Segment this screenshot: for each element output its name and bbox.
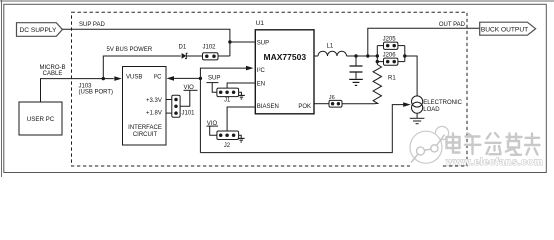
connector BUCK OUTPUT: [480, 22, 536, 35]
ground (J1): [238, 92, 245, 99]
figure frame: [0, 0, 554, 177]
arrow into electronic load: [403, 102, 411, 107]
ground C1: [349, 79, 363, 85]
svg-text:L1: L1: [327, 44, 334, 50]
svg-text:SUP PAD: SUP PAD: [79, 22, 105, 28]
wire J205/J206 right bus: [404, 46, 406, 62]
box USER PC: [19, 102, 62, 135]
wire load control bottom run: [200, 105, 404, 153]
header J101: [172, 95, 180, 117]
ground (J2): [238, 135, 245, 142]
wire 5V BUS POWER: [103, 56, 181, 79]
wire LX to L1: [314, 55, 318, 57]
svg-text:USER PC: USER PC: [27, 116, 55, 123]
connector DC SUPPLY: [17, 23, 63, 37]
svg-text:J206: J206: [383, 52, 397, 58]
svg-text:BIASEN: BIASEN: [257, 104, 279, 110]
wire USB cable from USER PC: [41, 79, 114, 102]
svg-text:J101: J101: [182, 110, 196, 116]
svg-text:OUT PAD: OUT PAD: [439, 22, 466, 28]
wire SUP node to SUP pin: [230, 41, 255, 43]
svg-text:5V BUS POWER: 5V BUS POWER: [107, 47, 153, 53]
svg-text:U1: U1: [256, 20, 265, 27]
inductor L1: [318, 51, 347, 56]
svg-text:CIRCUIT: CIRCUIT: [133, 132, 158, 138]
junction J206 left pin node: [376, 60, 379, 63]
IC U1 MAX77503: [255, 30, 314, 114]
svg-text:EN: EN: [257, 81, 265, 87]
wire L1 to output node: [347, 55, 378, 57]
svg-text:J102: J102: [203, 44, 217, 50]
wire +1.8V stub: [166, 112, 172, 114]
svg-text:MAX77503: MAX77503: [264, 52, 307, 62]
junction right bus node: [403, 54, 406, 57]
svg-text:(USB PORT): (USB PORT): [79, 90, 114, 96]
wire VIO to J2 pin1: [210, 126, 217, 135]
capacitor C1 lead: [355, 56, 357, 66]
svg-text:I²C: I²C: [154, 75, 163, 81]
wire OUT PAD riser: [368, 28, 480, 56]
wire D1 to J102: [187, 55, 203, 57]
capacitor C1: [350, 66, 363, 72]
svg-text:BUCK OUTPUT: BUCK OUTPUT: [481, 26, 528, 33]
wire I2C tap to interface circuit: [173, 77, 201, 79]
wire J205 left bus: [376, 46, 378, 65]
wire EN: [227, 83, 254, 88]
junction J205 left bus node: [376, 54, 379, 57]
svg-text:LOAD: LOAD: [423, 107, 440, 113]
junction OUT riser node: [366, 54, 369, 57]
svg-text:POK: POK: [298, 104, 311, 110]
resistor R1: [373, 65, 381, 104]
svg-text:I²C: I²C: [257, 68, 266, 74]
svg-text:www.elecfans.com: www.elecfans.com: [445, 157, 543, 168]
wire SUP PAD rail: [62, 29, 230, 56]
junction cap node: [354, 54, 357, 57]
wire output to electronic load: [405, 56, 417, 96]
wire J6 to R1 bottom: [342, 103, 374, 105]
diode D1: [182, 53, 188, 59]
interface circuit block: [123, 67, 167, 146]
svg-text:D1: D1: [179, 44, 187, 50]
junction VBUS tap: [102, 77, 105, 80]
wire VIO to J101 pin2: [180, 90, 190, 106]
wire BIASEN: [227, 107, 254, 131]
watermark: [410, 126, 449, 169]
svg-text:ELECTRONIC: ELECTRONIC: [423, 100, 462, 106]
svg-text:CABLE: CABLE: [43, 71, 63, 77]
svg-text:+3.3V: +3.3V: [146, 98, 162, 104]
svg-text:R1: R1: [388, 76, 396, 82]
svg-text:VUSB: VUSB: [126, 75, 142, 81]
arrow into U1 I2C: [246, 66, 254, 71]
ground (load): [410, 114, 425, 124]
junction I2C tap: [199, 77, 202, 80]
arrow into interface I2C: [167, 76, 175, 81]
wire J102 to SUP drop: [218, 55, 230, 57]
svg-text:INTERFACE: INTERFACE: [128, 125, 162, 131]
junction SUP node: [228, 40, 231, 43]
header J2: [217, 131, 239, 140]
wire +3.3V stub: [166, 99, 172, 101]
svg-text:SUP: SUP: [208, 75, 220, 81]
wire SUP to J1 pin1: [212, 83, 217, 93]
arrow into VUSB: [114, 76, 122, 81]
electronic load: [412, 96, 423, 107]
wire POK to J6: [314, 103, 329, 105]
header J1: [217, 88, 239, 97]
svg-text:J2: J2: [224, 143, 231, 149]
wire I2C bus to U1: [200, 68, 246, 153]
svg-text:J1: J1: [224, 98, 231, 104]
svg-text:SUP: SUP: [257, 40, 269, 46]
watermark chinese characters: [447, 133, 540, 155]
svg-text:DC SUPPLY: DC SUPPLY: [20, 27, 57, 34]
svg-text:+1.8V: +1.8V: [146, 110, 162, 116]
EV kit boundary (dashed): [72, 12, 468, 166]
